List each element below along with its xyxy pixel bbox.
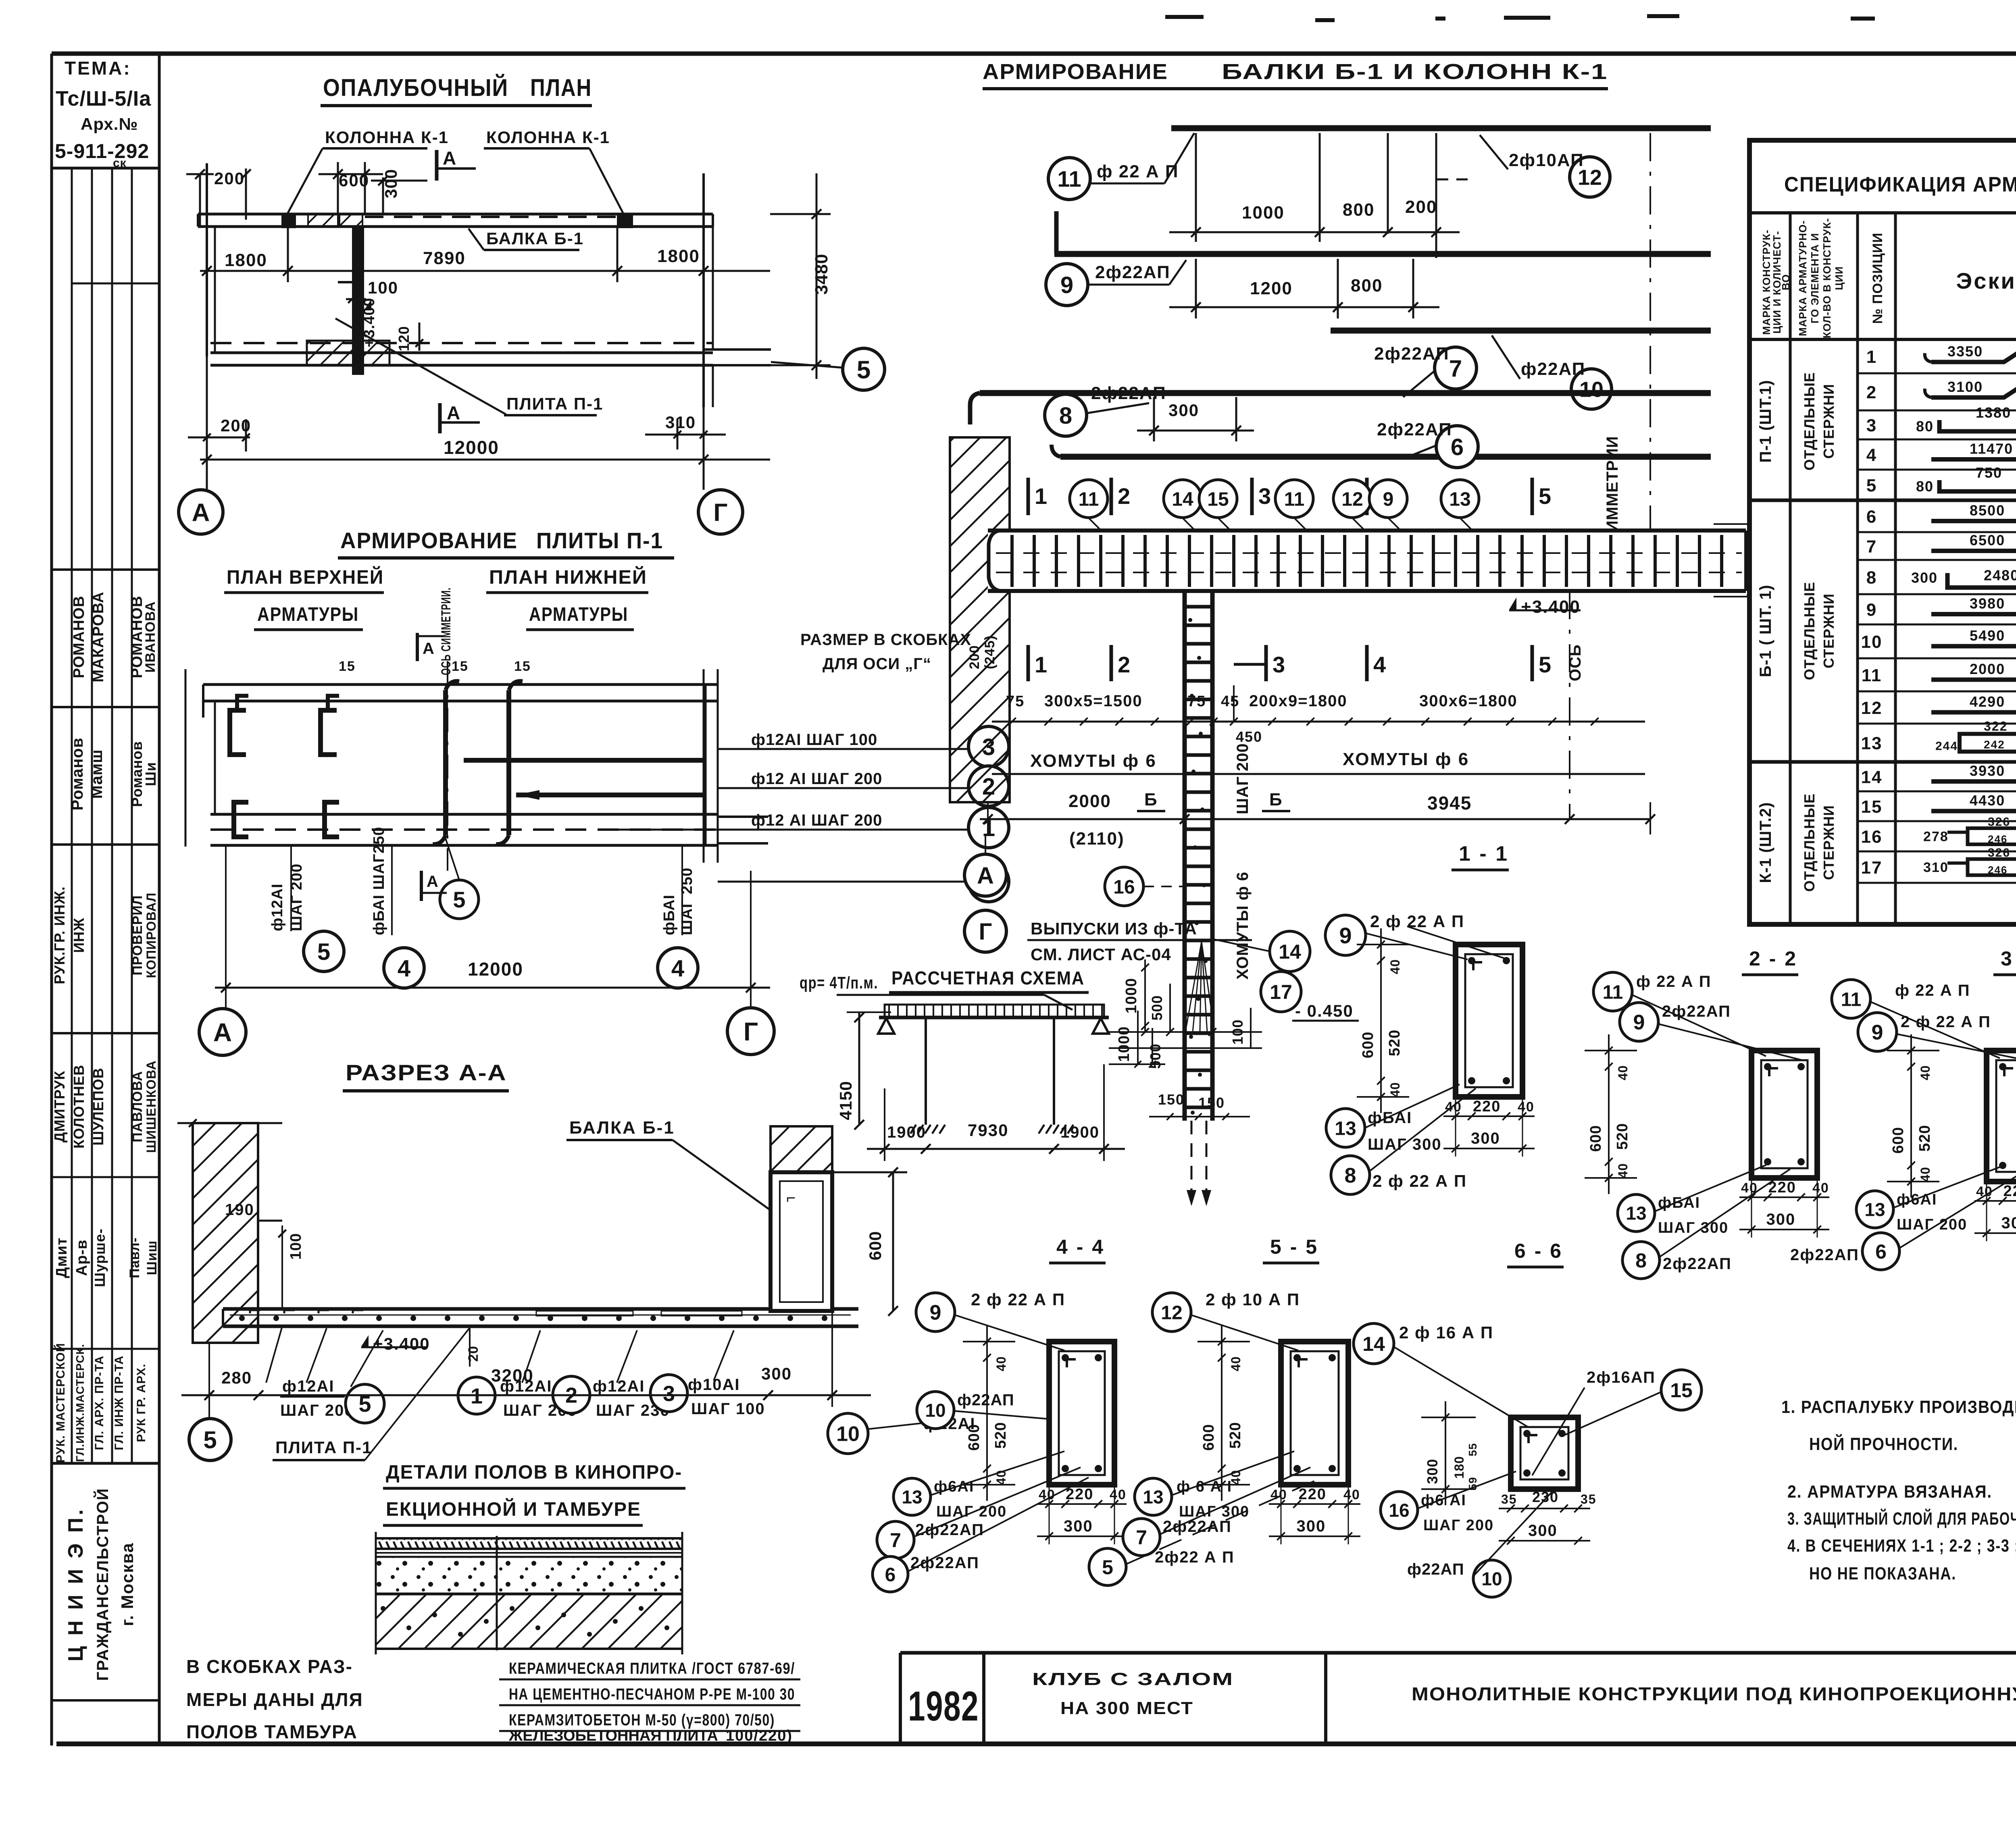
svg-text:ОТДЕЛЬНЫЕ: ОТДЕЛЬНЫЕ bbox=[1801, 372, 1818, 470]
svg-text:300x6=1800: 300x6=1800 bbox=[1419, 692, 1518, 710]
svg-text:ШАГ 200: ШАГ 200 bbox=[1897, 1216, 1967, 1233]
svg-text:1800: 1800 bbox=[225, 250, 267, 270]
svg-text:1380: 1380 bbox=[1976, 404, 2011, 421]
right callout leaders 3 2 1 5 bbox=[718, 748, 968, 750]
svg-text:ПАВЛОВА: ПАВЛОВА bbox=[130, 1071, 145, 1142]
svg-text:9: 9 bbox=[1872, 1021, 1883, 1044]
svg-text:15: 15 bbox=[1861, 797, 1883, 817]
svg-text:ОТДЕЛЬНЫЕ: ОТДЕЛЬНЫЕ bbox=[1801, 582, 1818, 680]
svg-text:600: 600 bbox=[1587, 1125, 1604, 1152]
svg-text:150: 150 bbox=[1198, 1094, 1225, 1111]
eskiz sketches bbox=[1931, 457, 2016, 462]
svg-text:2: 2 bbox=[1118, 483, 1131, 509]
svg-text:9: 9 bbox=[1383, 489, 1394, 510]
svg-text:Павл-: Павл- bbox=[127, 1237, 142, 1278]
svg-text:180: 180 bbox=[1452, 1456, 1466, 1479]
svg-text:2 ф 10 А П: 2 ф 10 А П bbox=[1206, 1290, 1300, 1309]
svg-text:+3.400: +3.400 bbox=[373, 1334, 430, 1353]
svg-text:11: 11 bbox=[1841, 989, 1862, 1010]
svg-text:13: 13 bbox=[902, 1487, 922, 1508]
svg-text:ф6 АI: ф6 АI bbox=[1421, 1492, 1466, 1509]
svg-text:4 - 4: 4 - 4 bbox=[1056, 1236, 1105, 1258]
svg-text:246: 246 bbox=[1988, 833, 2008, 845]
svg-text:8: 8 bbox=[1059, 403, 1072, 429]
svg-text:qр= 4Т/п.м.: qр= 4Т/п.м. bbox=[800, 973, 878, 992]
svg-text:13: 13 bbox=[1143, 1487, 1163, 1508]
arrow on bar 2 bbox=[516, 790, 539, 800]
stamp theme box bbox=[53, 167, 159, 170]
svg-text:РОМАНОВ: РОМАНОВ bbox=[71, 596, 87, 678]
svg-text:600: 600 bbox=[866, 1231, 885, 1260]
svg-text:БАЛКИ Б-1 И КОЛОНН К-1: БАЛКИ Б-1 И КОЛОНН К-1 bbox=[1222, 60, 1608, 84]
svg-text:ДЛЯ ОСИ „Г“: ДЛЯ ОСИ „Г“ bbox=[823, 655, 931, 673]
right vertical dim 3480 bbox=[816, 173, 818, 379]
floor layers drawing bbox=[376, 1538, 682, 1549]
svg-text:300: 300 bbox=[1168, 401, 1199, 420]
svg-text:КОЛ-ВО В КОНСТРУК-: КОЛ-ВО В КОНСТРУК- bbox=[1821, 218, 1833, 339]
svg-text:7890: 7890 bbox=[423, 248, 466, 268]
svg-text:Ши: Ши bbox=[142, 762, 159, 786]
title stamp column bbox=[158, 54, 161, 1744]
right callout 10 bbox=[828, 1413, 868, 1454]
svg-text:КЕРАМЗИТОБЕТОН М-50 (γ=800): КЕРАМЗИТОБЕТОН М-50 (γ=800) 70/50) bbox=[509, 1711, 775, 1729]
svg-text:2000: 2000 bbox=[1068, 791, 1111, 811]
svg-text:500: 500 bbox=[1149, 995, 1165, 1020]
svg-text:40: 40 bbox=[1388, 959, 1402, 974]
svg-text:фБАI: фБАI bbox=[661, 895, 678, 935]
symmetry axis (upper) bbox=[1649, 133, 1651, 532]
svg-text:ЖЕЛЕЗОБЕТОННАЯ ПЛИТА: ЖЕЛЕЗОБЕТОННАЯ ПЛИТА bbox=[508, 1727, 718, 1744]
svg-text:200: 200 bbox=[967, 645, 982, 669]
svg-text:5: 5 bbox=[1539, 652, 1552, 677]
svg-text:16: 16 bbox=[1113, 876, 1135, 898]
svg-text:3200: 3200 bbox=[491, 1366, 534, 1386]
svg-text:15: 15 bbox=[452, 659, 469, 674]
beam right end dim 600 bbox=[1751, 524, 1753, 597]
svg-text:100: 100 bbox=[287, 1233, 304, 1260]
svg-text:ХОМУТЫ ф 6: ХОМУТЫ ф 6 bbox=[1030, 751, 1157, 771]
scheme beam with load hatch bbox=[885, 1005, 1104, 1017]
svg-text:6: 6 bbox=[1451, 434, 1464, 460]
svg-text:800: 800 bbox=[1343, 200, 1375, 220]
svg-text:2ф22АП: 2ф22АП bbox=[1663, 1255, 1732, 1273]
svg-text:СТЕРЖНИ: СТЕРЖНИ bbox=[1820, 593, 1837, 668]
svg-text:КОПИРОВАЛ: КОПИРОВАЛ bbox=[144, 893, 158, 978]
svg-text:ЕКЦИОННОЙ И ТАМБУРЕ: ЕКЦИОННОЙ И ТАМБУРЕ bbox=[386, 1498, 641, 1520]
svg-text:АРМИРОВАНИЕ: АРМИРОВАНИЕ bbox=[983, 60, 1168, 84]
svg-text:12: 12 bbox=[1861, 698, 1883, 718]
svg-text:300: 300 bbox=[1911, 570, 1938, 586]
svg-text:326: 326 bbox=[1988, 816, 2010, 829]
svg-text:ШАГ 100: ШАГ 100 bbox=[691, 1400, 765, 1418]
svg-text:2ф22АП: 2ф22АП bbox=[1662, 1003, 1731, 1020]
svg-text:3100: 3100 bbox=[1947, 379, 1983, 395]
svg-text:г. Москва: г. Москва bbox=[118, 1542, 137, 1626]
svg-text:⌐: ⌐ bbox=[786, 1189, 796, 1207]
svg-text:Арх.№: Арх.№ bbox=[81, 114, 138, 133]
svg-text:278: 278 bbox=[1923, 829, 1949, 845]
svg-text:Ар-в: Ар-в bbox=[73, 1240, 90, 1276]
top margin stray dashes bbox=[1165, 15, 1204, 19]
svg-text:5: 5 bbox=[317, 939, 330, 965]
svg-text:МОНОЛИТНЫЕ КОНСТРУКЦИИ: МОНОЛИТНЫЕ КОНСТРУКЦИИ ПОД КИНОПРОЕКЦИОН… bbox=[1412, 1683, 2016, 1704]
hatch patch on lower strip bbox=[307, 341, 389, 365]
bottom rebar hooks bbox=[234, 802, 248, 837]
svg-text:ф 22 А П: ф 22 А П bbox=[1895, 982, 1970, 999]
svg-text:5490: 5490 bbox=[1970, 627, 2005, 644]
svg-text:ф12АI: ф12АI bbox=[282, 1377, 335, 1395]
svg-text:3930: 3930 bbox=[1970, 763, 2005, 779]
svg-text:3350: 3350 bbox=[1947, 343, 1983, 360]
svg-text:КОЛОННА К-1: КОЛОННА К-1 bbox=[486, 128, 610, 147]
callout 14 17 bbox=[1270, 931, 1310, 972]
svg-text:2ф22АП: 2ф22АП bbox=[1377, 420, 1452, 439]
spec row lines bbox=[1858, 372, 2016, 374]
svg-text:ИВАНОВА: ИВАНОВА bbox=[143, 601, 158, 672]
svg-text:300: 300 bbox=[2001, 1214, 2016, 1232]
svg-text:2000: 2000 bbox=[1970, 661, 2005, 677]
svg-text:45: 45 bbox=[1221, 693, 1239, 710]
svg-text:Ц Н И И Э П.: Ц Н И И Э П. bbox=[64, 1507, 87, 1661]
sheet outer frame bbox=[52, 52, 2016, 56]
svg-text:БАЛКА Б-1: БАЛКА Б-1 bbox=[569, 1118, 675, 1138]
svg-text:3: 3 bbox=[1866, 416, 1877, 435]
svg-text:МАКАРОВА: МАКАРОВА bbox=[90, 591, 107, 682]
svg-text:МАРКА АРМАТУРНО-: МАРКА АРМАТУРНО- bbox=[1797, 220, 1809, 336]
bar pos7 bbox=[980, 390, 1711, 396]
svg-text:НА ЦЕМЕНТНО-ПЕСЧАНОМ Р-РЕ М-: НА ЦЕМЕНТНО-ПЕСЧАНОМ Р-РЕ М-100 30 bbox=[509, 1685, 795, 1703]
supports bbox=[878, 1018, 894, 1034]
svg-text:17: 17 bbox=[1861, 858, 1883, 878]
callout 16 dashed bbox=[1105, 867, 1143, 906]
svg-text:300: 300 bbox=[1766, 1211, 1796, 1228]
svg-text:ПЛИТА П-1: ПЛИТА П-1 bbox=[506, 394, 603, 413]
svg-text:ДЕТАЛИ ПОЛОВ В КИНОПРО-: ДЕТАЛИ ПОЛОВ В КИНОПРО- bbox=[386, 1462, 682, 1483]
svg-text:№ ПОЗИЦИИ: № ПОЗИЦИИ bbox=[1870, 233, 1885, 324]
wall hatch left of beam bbox=[950, 437, 1010, 802]
svg-text:А: А bbox=[977, 863, 994, 889]
svg-text:ф22АП: ф22АП bbox=[1407, 1560, 1464, 1578]
section mark A (bottom) bbox=[438, 403, 442, 433]
svg-text:РУК ГР. АРХ.: РУК ГР. АРХ. bbox=[135, 1364, 148, 1442]
svg-text:40: 40 bbox=[1343, 1487, 1360, 1502]
svg-text:11: 11 bbox=[1284, 489, 1305, 510]
svg-text:5: 5 bbox=[1866, 476, 1877, 495]
dim line 1800 7890 1800 bbox=[200, 270, 770, 272]
svg-text:Г: Г bbox=[744, 1017, 758, 1046]
dim 600 right of beam bbox=[892, 1172, 894, 1311]
svg-text:220: 220 bbox=[1473, 1098, 1501, 1115]
svg-text:+3.400: +3.400 bbox=[1521, 597, 1581, 617]
svg-text:10: 10 bbox=[1481, 1569, 1502, 1590]
svg-text:2 ф 22 А П: 2 ф 22 А П bbox=[1370, 912, 1464, 931]
svg-text:14: 14 bbox=[1279, 940, 1301, 963]
svg-text:РУК. МАСТЕРСКОЙ: РУК. МАСТЕРСКОЙ bbox=[54, 1343, 67, 1463]
svg-text:4: 4 bbox=[398, 955, 410, 982]
svg-text:450: 450 bbox=[1236, 728, 1262, 745]
svg-text:- 0.450: - 0.450 bbox=[1295, 1001, 1354, 1020]
svg-text:5: 5 bbox=[1102, 1556, 1113, 1579]
svg-text:7: 7 bbox=[890, 1529, 901, 1552]
svg-text:2 ф 22 А П: 2 ф 22 А П bbox=[1372, 1171, 1467, 1190]
svg-text:Г: Г bbox=[713, 499, 727, 526]
section mark A small (top) bbox=[416, 633, 419, 661]
svg-text:7: 7 bbox=[1449, 356, 1462, 382]
svg-text:200x9=1800: 200x9=1800 bbox=[1249, 692, 1347, 710]
svg-text:ПЛИТЫ П-1: ПЛИТЫ П-1 bbox=[536, 528, 663, 553]
svg-text:13: 13 bbox=[1335, 1118, 1356, 1139]
svg-text:11: 11 bbox=[1862, 666, 1882, 685]
svg-text:2 ф 22 А П: 2 ф 22 А П bbox=[971, 1290, 1065, 1309]
svg-text:5 - 5: 5 - 5 bbox=[1270, 1236, 1318, 1258]
svg-text:3: 3 bbox=[1272, 652, 1286, 677]
svg-text:120: 120 bbox=[396, 326, 412, 351]
svg-text:13: 13 bbox=[1864, 1199, 1885, 1220]
svg-text:10: 10 bbox=[925, 1400, 946, 1421]
section ticks above beam bbox=[1027, 478, 1030, 515]
svg-text:300: 300 bbox=[1064, 1517, 1093, 1535]
svg-text:ВО: ВО bbox=[1780, 274, 1792, 290]
svg-text:1: 1 bbox=[1035, 483, 1048, 509]
svg-text:20: 20 bbox=[466, 1346, 481, 1362]
svg-text:КОЛОННА К-1: КОЛОННА К-1 bbox=[325, 128, 449, 147]
svg-text:ОПАЛУБОЧНЫЙ: ОПАЛУБОЧНЫЙ bbox=[323, 74, 508, 101]
svg-text:40: 40 bbox=[1918, 1167, 1933, 1182]
svg-text:12: 12 bbox=[1341, 489, 1363, 510]
svg-text:300: 300 bbox=[381, 169, 400, 198]
svg-text:фБАI: фБАI bbox=[1658, 1194, 1700, 1211]
svg-text:3945: 3945 bbox=[1427, 793, 1472, 813]
svg-text:600: 600 bbox=[1360, 1032, 1377, 1058]
svg-text:520: 520 bbox=[1614, 1123, 1631, 1150]
svg-text:2ф10АП: 2ф10АП bbox=[1509, 150, 1584, 170]
slab rebar dots bbox=[239, 1315, 245, 1321]
svg-text:16: 16 bbox=[1861, 827, 1883, 847]
svg-text:4: 4 bbox=[671, 955, 684, 982]
6-6 left dims bbox=[1445, 1401, 1446, 1505]
svg-text:9: 9 bbox=[1060, 272, 1073, 298]
svg-text:5: 5 bbox=[453, 887, 465, 912]
svg-text:А: А bbox=[192, 499, 210, 526]
svg-text:200: 200 bbox=[214, 169, 245, 188]
svg-text:8: 8 bbox=[1345, 1164, 1356, 1188]
svg-text:ф12АI: ф12АI bbox=[269, 883, 286, 931]
svg-text:ШАГ 200: ШАГ 200 bbox=[1234, 743, 1252, 814]
svg-text:Шиш: Шиш bbox=[144, 1240, 160, 1275]
svg-text:Шурше-: Шурше- bbox=[92, 1228, 108, 1287]
svg-text:1900: 1900 bbox=[887, 1123, 926, 1141]
svg-text:750: 750 bbox=[1976, 464, 2002, 481]
plan top beam strip bbox=[198, 213, 713, 216]
svg-text:ЦИИ: ЦИИ bbox=[1833, 266, 1845, 290]
svg-text:ДМИТРУК: ДМИТРУК bbox=[51, 1071, 68, 1142]
svg-text:СИММЕТРИИ: СИММЕТРИИ bbox=[1604, 436, 1621, 544]
svg-text:13: 13 bbox=[1449, 489, 1470, 510]
svg-text:2 ф 16 А П: 2 ф 16 А П bbox=[1399, 1323, 1493, 1342]
svg-text:2ф22АП: 2ф22АП bbox=[1095, 262, 1170, 282]
svg-text:ОСЬ СИММЕТРИИ.: ОСЬ СИММЕТРИИ. bbox=[439, 587, 453, 675]
svg-text:40: 40 bbox=[1616, 1065, 1630, 1080]
svg-text:80: 80 bbox=[1916, 478, 1934, 495]
svg-text:СПЕЦИФИКАЦИЯ АРМАТУРЫ НА: СПЕЦИФИКАЦИЯ АРМАТУРЫ НА 1 КОНСТРУКЦИЮ bbox=[1784, 173, 2016, 196]
svg-text:520: 520 bbox=[1916, 1125, 1933, 1151]
right half vertical bars with hooks bbox=[443, 690, 448, 835]
svg-text:3980: 3980 bbox=[1970, 595, 2005, 612]
svg-text:1900: 1900 bbox=[1060, 1123, 1100, 1141]
svg-text:300: 300 bbox=[761, 1364, 792, 1383]
svg-text:40: 40 bbox=[1388, 1082, 1402, 1097]
svg-text:40: 40 bbox=[1918, 1065, 1933, 1080]
svg-text:7: 7 bbox=[1136, 1526, 1147, 1549]
svg-text:А: А bbox=[423, 640, 435, 657]
svg-text:МЕРЫ ДАНЫ ДЛЯ: МЕРЫ ДАНЫ ДЛЯ bbox=[186, 1689, 363, 1710]
svg-text:ТЕМА:: ТЕМА: bbox=[65, 58, 131, 79]
svg-text:ф 6 А I: ф 6 А I bbox=[1177, 1478, 1232, 1495]
svg-text:КОЛОТНЕВ: КОЛОТНЕВ bbox=[71, 1065, 87, 1148]
svg-text:1 - 1: 1 - 1 bbox=[1459, 842, 1509, 865]
svg-text:ГО ЭЛЕМЕНТА И: ГО ЭЛЕМЕНТА И bbox=[1809, 233, 1821, 324]
section ticks below beam bbox=[1027, 645, 1030, 681]
svg-text:(245): (245) bbox=[982, 635, 998, 669]
svg-text:5: 5 bbox=[203, 1427, 217, 1454]
svg-text:5: 5 bbox=[1539, 483, 1552, 509]
svg-text:7: 7 bbox=[1866, 537, 1877, 557]
plan left edge lines bbox=[206, 163, 208, 356]
svg-text:6500: 6500 bbox=[1970, 532, 2005, 549]
svg-text:ОСЬ: ОСЬ bbox=[1566, 644, 1584, 681]
beam plan body bbox=[988, 531, 1746, 591]
svg-text:520: 520 bbox=[1227, 1422, 1244, 1448]
svg-text:600: 600 bbox=[966, 1424, 983, 1450]
left wall hatch bbox=[193, 1123, 258, 1343]
svg-text:246: 246 bbox=[1988, 864, 2008, 876]
svg-text:40: 40 bbox=[1616, 1163, 1630, 1178]
svg-text:220: 220 bbox=[1299, 1486, 1327, 1503]
svg-text:1. РАСПАЛУБКУ ПРОИЗВОДИТЬ: 1. РАСПАЛУБКУ ПРОИЗВОДИТЬ ПОСЛЕ ДОСТИЖЕН… bbox=[1781, 1397, 2016, 1417]
svg-text:НО НЕ ПОКАЗАНА.: НО НЕ ПОКАЗАНА. bbox=[1809, 1564, 1956, 1583]
svg-text:АРМАТУРЫ: АРМАТУРЫ bbox=[257, 604, 359, 625]
svg-text:1800: 1800 bbox=[657, 246, 700, 266]
svg-text:800: 800 bbox=[1351, 276, 1383, 295]
svg-text:8500: 8500 bbox=[1970, 502, 2005, 519]
svg-text:520: 520 bbox=[992, 1422, 1009, 1448]
plate plan outline bbox=[203, 683, 718, 686]
svg-text:15: 15 bbox=[1207, 489, 1229, 510]
svg-text:40: 40 bbox=[1110, 1487, 1127, 1502]
svg-text:РАССЧЕТНАЯ СХЕМА: РАССЧЕТНАЯ СХЕМА bbox=[891, 967, 1085, 988]
svg-text:7930: 7930 bbox=[968, 1121, 1008, 1140]
svg-text:11: 11 bbox=[1079, 489, 1099, 510]
top rebar hooks (C shapes, upper plan) bbox=[230, 710, 246, 755]
axis circles А Г bbox=[179, 490, 223, 534]
svg-text:326: 326 bbox=[1988, 846, 2010, 859]
svg-text:ПЛАН: ПЛАН bbox=[530, 74, 592, 101]
svg-text:200: 200 bbox=[1405, 197, 1437, 217]
svg-text:КЛУБ С ЗАЛОМ: КЛУБ С ЗАЛОМ bbox=[1032, 1669, 1234, 1689]
plan wall/column black tee bbox=[352, 227, 364, 375]
svg-text:СТЕРЖНИ: СТЕРЖНИ bbox=[1820, 384, 1837, 459]
+3.400 flag on beam bbox=[1509, 597, 1516, 610]
svg-text:ф22АП: ф22АП bbox=[957, 1391, 1014, 1409]
svg-text:520: 520 bbox=[1386, 1030, 1403, 1056]
thick distribution bars (right half) bbox=[464, 758, 704, 763]
svg-text:А: А bbox=[443, 148, 457, 169]
callout 10 for section 4-4 bbox=[917, 1392, 954, 1429]
svg-text:ф12 АI ШАГ 200: ф12 АI ШАГ 200 bbox=[751, 811, 882, 829]
svg-text:ИНЖ: ИНЖ bbox=[71, 917, 87, 953]
svg-text:35: 35 bbox=[1581, 1492, 1597, 1506]
svg-text:ПРОВЕРИЛ: ПРОВЕРИЛ bbox=[130, 895, 145, 975]
svg-text:ХОМУТЫ: ХОМУТЫ bbox=[1343, 749, 1429, 769]
svg-text:2ф16АП: 2ф16АП bbox=[1587, 1369, 1656, 1386]
svg-text:К-1 (ШТ.2): К-1 (ШТ.2) bbox=[1757, 802, 1774, 883]
6-6 bottom dims bbox=[1499, 1508, 1590, 1509]
bottom dim chain 280 3200 300 bbox=[181, 1394, 871, 1396]
svg-text:ПЛАН НИЖНЕЙ: ПЛАН НИЖНЕЙ bbox=[489, 566, 647, 588]
svg-text:600: 600 bbox=[1890, 1127, 1907, 1153]
svg-text:600: 600 bbox=[1200, 1424, 1217, 1450]
svg-text:2. АРМАТУРА ВЯЗАНАЯ.: 2. АРМАТУРА ВЯЗАНАЯ. bbox=[1787, 1482, 1992, 1502]
right tee cross bbox=[702, 173, 705, 407]
svg-text:2ф22АП: 2ф22АП bbox=[915, 1521, 984, 1539]
svg-text:190: 190 bbox=[225, 1201, 254, 1219]
bar pos8 with 300 leg bbox=[1045, 394, 1087, 436]
svg-text:А: А bbox=[447, 402, 461, 423]
axis circles А Г (beam) bbox=[964, 854, 1006, 896]
svg-text:4: 4 bbox=[1373, 652, 1387, 677]
svg-text:75: 75 bbox=[1006, 693, 1025, 710]
plan lower strip with dashed hidden line bbox=[210, 342, 713, 344]
svg-text:10: 10 bbox=[836, 1423, 860, 1446]
svg-text:12000: 12000 bbox=[468, 959, 523, 980]
svg-text:2 - 2: 2 - 2 bbox=[1749, 947, 1797, 970]
svg-text:Б-1 ( ШТ. 1): Б-1 ( ШТ. 1) bbox=[1757, 585, 1774, 677]
svg-text:80: 80 bbox=[1916, 418, 1934, 435]
scheme right dims 1000 500 bbox=[1137, 1011, 1139, 1064]
svg-text:6 - 6: 6 - 6 bbox=[1514, 1240, 1563, 1262]
right column: hatch + beam section bbox=[771, 1126, 832, 1172]
svg-text:4. В СЕЧЕНИЯХ 1-1 ; 2-2 ;: 4. В СЕЧЕНИЯХ 1-1 ; 2-2 ; 3-3 ; 4-4 ; 5-… bbox=[1787, 1536, 2016, 1556]
svg-text:242: 242 bbox=[1984, 739, 2005, 751]
svg-text:БАЛКА Б-1: БАЛКА Б-1 bbox=[486, 229, 584, 248]
svg-text:ПОЛОВ ТАМБУРА: ПОЛОВ ТАМБУРА bbox=[186, 1721, 358, 1742]
svg-text:14: 14 bbox=[1172, 489, 1193, 510]
svg-text:3 - 3: 3 - 3 bbox=[2001, 947, 2016, 970]
svg-text:16: 16 bbox=[1389, 1500, 1409, 1521]
svg-text:КЕРАМИЧЕСКАЯ ПЛИТКА /ГОСТ 678: КЕРАМИЧЕСКАЯ ПЛИТКА /ГОСТ 6787-69/ bbox=[509, 1660, 795, 1677]
svg-text:9: 9 bbox=[1339, 923, 1352, 948]
beam inner dashed bars bbox=[996, 552, 1742, 554]
section mark A small (bottom) bbox=[420, 871, 423, 901]
svg-text:4290: 4290 bbox=[1970, 693, 2005, 710]
svg-text:ГЛ. ИНЖ ПР-ТА: ГЛ. ИНЖ ПР-ТА bbox=[112, 1355, 126, 1450]
svg-text:3: 3 bbox=[663, 1381, 675, 1406]
column foundation outlet dashes bbox=[1191, 1121, 1193, 1193]
svg-text:2ф22 А П: 2ф22 А П bbox=[1155, 1548, 1235, 1566]
svg-text:1982: 1982 bbox=[908, 1683, 979, 1730]
svg-text:ШИШЕНКОВА: ШИШЕНКОВА bbox=[144, 1060, 158, 1153]
svg-text:75: 75 bbox=[1187, 693, 1206, 710]
svg-text:ф 22 А П: ф 22 А П bbox=[1636, 973, 1711, 990]
svg-text:310: 310 bbox=[665, 413, 696, 432]
svg-text:40: 40 bbox=[994, 1356, 1008, 1371]
svg-text:35: 35 bbox=[1501, 1492, 1517, 1506]
svg-text:300: 300 bbox=[1528, 1522, 1558, 1540]
svg-text:300: 300 bbox=[1424, 1458, 1441, 1484]
svg-text:6: 6 bbox=[1875, 1240, 1887, 1263]
svg-text:13: 13 bbox=[1861, 734, 1883, 753]
svg-text:(2110): (2110) bbox=[1069, 829, 1125, 849]
